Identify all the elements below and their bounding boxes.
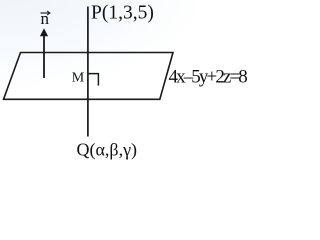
svg-text:P(1,3,5): P(1,3,5) bbox=[91, 3, 154, 24]
right angle marker at M bbox=[88, 74, 98, 86]
normal vector n arrowhead bbox=[40, 28, 48, 36]
svg-text:M: M bbox=[72, 71, 85, 86]
plane (parallelogram) 4x-5y+2z=8 bbox=[4, 53, 174, 100]
svg-text:4x–5y+2z=8: 4x–5y+2z=8 bbox=[169, 66, 248, 87]
vector bar arrow over n bbox=[41, 12, 50, 14]
svg-text:Q(α,β,γ): Q(α,β,γ) bbox=[77, 139, 138, 160]
normal vector n shaft bbox=[43, 36, 45, 79]
line PQ bbox=[87, 7, 89, 137]
